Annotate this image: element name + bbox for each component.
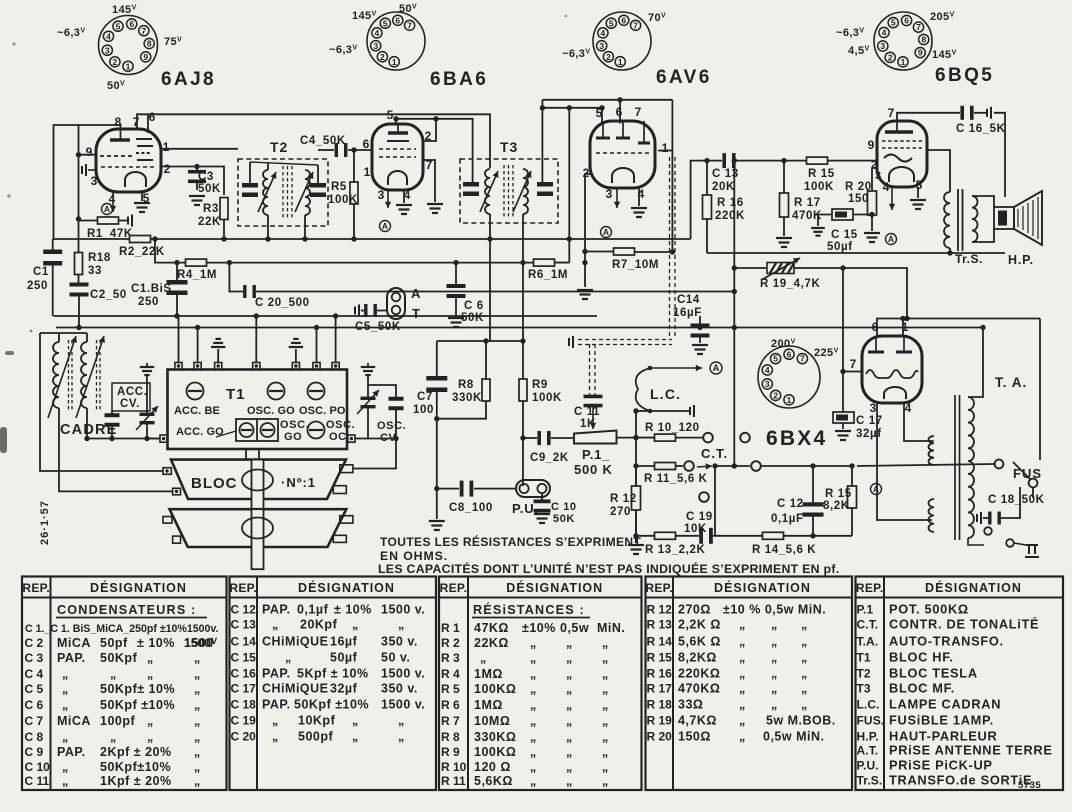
svg-text:„: „ — [771, 651, 778, 665]
svg-text:R 7: R 7 — [441, 714, 460, 728]
svg-text:47KΩ: 47KΩ — [474, 621, 509, 635]
paper smudge left edge — [0, 427, 7, 453]
svg-text:R 20: R 20 — [845, 181, 872, 193]
svg-text:C 19: C 19 — [231, 714, 257, 728]
svg-text:50Kpf ±10%: 50Kpf ±10% — [294, 698, 369, 712]
svg-text:„: „ — [739, 698, 746, 712]
T1 top terminals — [175, 363, 182, 370]
tube V5 plate bars — [868, 351, 912, 354]
svg-text:1500 v.: 1500 v. — [381, 667, 425, 681]
svg-text:C 8: C 8 — [25, 730, 44, 744]
paper speck 4 — [7, 194, 11, 198]
svg-text:3: 3 — [765, 379, 770, 389]
svg-text:DÉSIGNATION: DÉSIGNATION — [714, 580, 811, 595]
svg-text:CHiMiQUE: CHiMiQUE — [262, 682, 329, 696]
svg-text:„: „ — [530, 651, 537, 665]
R1 grid tick — [128, 215, 132, 227]
svg-text:R5: R5 — [331, 181, 347, 193]
tube V4 beam plates — [884, 155, 912, 162]
svg-text:50 v.: 50 v. — [381, 651, 410, 665]
C11 shielded dashed pair — [589, 344, 591, 397]
svg-text:C 18: C 18 — [231, 698, 257, 712]
svg-text:„: „ — [352, 730, 359, 744]
svg-text:C 20_500: C 20_500 — [255, 297, 310, 309]
T1 to BLOC shaft — [246, 449, 259, 460]
svg-text:„: „ — [272, 618, 279, 632]
svg-text:270: 270 — [610, 506, 631, 518]
capacitor C3 — [196, 166, 198, 171]
svg-text:T: T — [412, 306, 421, 321]
V2 pin3 arrow — [385, 190, 391, 208]
svg-text:R9: R9 — [532, 379, 548, 391]
svg-text:22K: 22K — [198, 216, 221, 228]
svg-text:„: „ — [285, 651, 292, 665]
svg-text:3: 3 — [880, 41, 885, 51]
svg-text:PRiSE PiCK-UP: PRiSE PiCK-UP — [889, 758, 993, 773]
svg-text:0,5w MiN.: 0,5w MiN. — [763, 730, 824, 744]
wire V4 grid2 branch — [872, 167, 877, 169]
svg-text:2: 2 — [583, 166, 590, 180]
svg-text:C 5: C 5 — [25, 682, 44, 696]
svg-text:„: „ — [602, 667, 609, 681]
svg-text:C 19: C 19 — [686, 511, 713, 523]
tube socket 6BA6 — [367, 12, 425, 70]
capacitor C16 — [960, 106, 973, 120]
svg-text:OC: OC — [329, 431, 347, 443]
svg-text:26·1·57: 26·1·57 — [39, 500, 51, 545]
V3 pin3 arrow — [614, 188, 620, 208]
tube V2 plate bar — [388, 124, 408, 133]
svg-text:150: 150 — [848, 193, 869, 205]
V4 pin4 arrow — [889, 187, 895, 210]
T3 right capacitor — [537, 182, 553, 196]
svg-text:R 6: R 6 — [441, 698, 460, 712]
T3 core dashed lines — [503, 165, 505, 217]
svg-text:FUS.: FUS. — [857, 714, 885, 728]
svg-text:DÉSIGNATION: DÉSIGNATION — [90, 580, 187, 595]
svg-text:MiN.: MiN. — [597, 621, 625, 635]
svg-text:330K: 330K — [452, 392, 482, 404]
pick-up terminal oval P.U. — [516, 480, 550, 497]
svg-text:1: 1 — [126, 61, 131, 71]
svg-text:A.T.: A.T. — [857, 744, 879, 758]
svg-text:100K: 100K — [804, 181, 834, 193]
T2 left capacitor — [242, 183, 258, 197]
svg-text:MiCA: MiCA — [57, 714, 91, 728]
shield dashed vertical pair from 6AV6 grid — [669, 157, 671, 338]
block T1 outline — [168, 370, 348, 450]
svg-text:H.P.: H.P. — [857, 730, 879, 744]
V4 pin5 ground — [917, 187, 919, 198]
svg-text:4: 4 — [765, 365, 770, 375]
svg-text:„: „ — [62, 774, 69, 788]
svg-text:C 20: C 20 — [231, 730, 257, 744]
svg-text:C7: C7 — [417, 391, 433, 403]
svg-text:6: 6 — [621, 15, 626, 25]
OSC.CV arrow — [357, 390, 379, 414]
R19 arrow — [763, 258, 800, 279]
svg-text:1K: 1K — [580, 418, 596, 430]
svg-text:„: „ — [739, 714, 746, 728]
svg-text:20Kpf: 20Kpf — [300, 618, 338, 632]
svg-text:100KΩ: 100KΩ — [474, 745, 516, 759]
svg-text:„: „ — [110, 730, 117, 744]
L.C. top wire with arrow to A — [650, 365, 702, 371]
svg-text:HAUT-PARLEUR: HAUT-PARLEUR — [889, 729, 997, 744]
svg-text:16µf: 16µf — [330, 635, 358, 649]
ground below C7 line — [429, 521, 445, 530]
svg-text:~6,3V: ~6,3V — [329, 44, 357, 56]
svg-text:T1: T1 — [226, 386, 246, 403]
V1 pin3 grid tick — [88, 169, 96, 171]
svg-text:50K: 50K — [553, 513, 575, 525]
svg-text:„: „ — [530, 682, 537, 696]
svg-text:C 9: C 9 — [25, 745, 44, 759]
svg-text:„: „ — [602, 774, 609, 788]
svg-text:MiCA: MiCA — [57, 636, 91, 650]
svg-text:REP.: REP. — [22, 581, 50, 595]
svg-text:1: 1 — [618, 57, 623, 67]
wire top heater bus from V1 pins to T3 — [137, 114, 490, 168]
svg-text:6: 6 — [904, 16, 909, 26]
svg-text:6: 6 — [129, 19, 134, 29]
svg-text:5: 5 — [773, 354, 778, 364]
svg-text:„: „ — [602, 698, 609, 712]
tube V2 grid dashed 1 — [379, 148, 416, 150]
T1 right side terminal wire to OSC.CV — [355, 438, 368, 440]
CADRE left winding — [53, 342, 59, 408]
transformer T3 dashed box — [460, 159, 558, 223]
svg-text:„: „ — [530, 760, 537, 774]
svg-text:„: „ — [771, 698, 778, 712]
svg-text:R 15: R 15 — [808, 168, 835, 180]
wire V2 pin2 riser — [423, 119, 436, 141]
svg-text:„: „ — [602, 636, 609, 650]
svg-text:0,5w: 0,5w — [560, 621, 589, 635]
svg-text:„: „ — [602, 714, 609, 728]
svg-text:„: „ — [801, 651, 808, 665]
wire T2 to C4 grid line — [318, 149, 334, 151]
svg-text:2: 2 — [113, 57, 118, 67]
V4 circled A — [886, 234, 897, 245]
svg-text:„: „ — [62, 682, 69, 696]
fuse blade — [1013, 462, 1030, 479]
svg-text:R 13_2,2K: R 13_2,2K — [645, 544, 705, 556]
svg-text:AUTO-TRANSFO.: AUTO-TRANSFO. — [889, 634, 1004, 649]
capacitor C6 — [455, 263, 457, 284]
junction vertical x=715 — [714, 466, 716, 536]
Tr.S secondary to HP — [972, 196, 994, 207]
BLOC shaft middle — [252, 460, 264, 510]
paper speck 3 — [12, 42, 15, 45]
svg-text:2Kpf ± 20%: 2Kpf ± 20% — [100, 745, 172, 759]
tube V4 cathode — [889, 167, 914, 182]
svg-text:„: „ — [801, 635, 808, 649]
svg-text:POT. 500KΩ: POT. 500KΩ — [889, 602, 969, 617]
wire R19 to secondary — [794, 268, 907, 319]
svg-text:7: 7 — [635, 105, 642, 119]
svg-text:PAP.: PAP. — [57, 745, 86, 759]
L.C. bottom wire with tick — [650, 410, 690, 412]
resistor R18 — [75, 253, 83, 275]
wire C3 top — [161, 167, 224, 196]
wire V1 pin8 to outer left vertical — [54, 125, 121, 239]
transformer T2 dashed box — [238, 159, 328, 226]
svg-text:C 12: C 12 — [777, 498, 804, 510]
R10 terminal circle — [703, 433, 713, 443]
capacitor C20 — [243, 285, 256, 298]
T3 right winding — [523, 169, 528, 214]
svg-text:P.1_: P.1_ — [582, 447, 610, 462]
svg-text:3: 3 — [606, 187, 613, 201]
svg-text:T.A.: T.A. — [857, 635, 879, 649]
svg-text:7: 7 — [850, 357, 857, 371]
svg-text:TRANSFO.de SORTiE: TRANSFO.de SORTiE — [889, 773, 1032, 788]
svg-text:„: „ — [147, 730, 154, 744]
capacitor C4 — [335, 143, 348, 157]
svg-text:„: „ — [566, 651, 573, 665]
svg-text:5Kpf ± 10%: 5Kpf ± 10% — [297, 667, 369, 681]
svg-text:PAP.: PAP. — [57, 651, 86, 665]
tube V3 pin stems — [603, 121, 644, 143]
Tr.S secondary winding — [972, 196, 978, 242]
svg-text:C 2: C 2 — [25, 636, 44, 650]
supply vertical x=734.3 from C13 row to tone line — [733, 161, 735, 466]
svg-text:1500 v.: 1500 v. — [381, 698, 425, 712]
svg-text:PAP.: PAP. — [262, 603, 291, 617]
svg-text:„: „ — [739, 730, 746, 744]
svg-text:R 9: R 9 — [441, 745, 460, 759]
svg-text:50Kpf± 10%: 50Kpf± 10% — [100, 682, 175, 696]
svg-text:C 10: C 10 — [25, 760, 51, 774]
ACC.CV box label — [112, 383, 150, 411]
svg-text:50pf: 50pf — [100, 636, 128, 650]
svg-text:C1.BiS: C1.BiS — [131, 283, 172, 295]
svg-text:250: 250 — [27, 280, 48, 292]
wire C20 branch from bus — [229, 263, 243, 292]
capacitor C15 electrolytic — [832, 209, 853, 220]
bottom bus y=253 — [707, 252, 1005, 254]
T2 right winding — [305, 170, 310, 215]
svg-text:R 11_5,6 K: R 11_5,6 K — [644, 473, 708, 485]
svg-text:6: 6 — [395, 15, 400, 25]
tube V5 plate stems — [876, 336, 904, 352]
wire V4 plate to Tr.S primary — [927, 150, 950, 192]
R20 ground — [864, 233, 880, 242]
svg-text:120 Ω: 120 Ω — [474, 760, 511, 774]
wire 6BX4 anode top bracket — [877, 319, 1040, 337]
svg-text:145V: 145V — [112, 4, 137, 16]
svg-text:3: 3 — [373, 41, 378, 51]
resistor R7 — [585, 251, 613, 253]
V1 pin5 ground — [141, 192, 143, 201]
svg-text:C 16: C 16 — [231, 667, 257, 681]
svg-text:„: „ — [398, 714, 405, 728]
svg-text:6: 6 — [787, 349, 792, 359]
svg-text:R 19: R 19 — [647, 714, 673, 728]
svg-text:9: 9 — [918, 48, 923, 58]
circled A right of L.C. — [710, 362, 722, 374]
tube V2 6BA6 envelope — [372, 124, 423, 190]
T1 terminal wire 6 — [316, 328, 318, 363]
capacitor C13 — [722, 153, 735, 168]
svg-text:C 15: C 15 — [831, 229, 858, 241]
svg-text:L.C.: L.C. — [650, 386, 681, 402]
svg-text:C14: C14 — [677, 294, 700, 306]
terminal circle below C.T. — [699, 492, 709, 502]
svg-text:4,7KΩ: 4,7KΩ — [678, 714, 717, 728]
svg-text:„: „ — [147, 714, 154, 728]
svg-text:„: „ — [739, 682, 746, 696]
resistor R6 in AVC bus — [534, 259, 555, 266]
svg-text:„: „ — [352, 618, 359, 632]
svg-text:„: „ — [194, 745, 201, 759]
svg-text:C 13: C 13 — [712, 168, 739, 180]
BLOC shaft lower — [252, 509, 264, 569]
C3 ground — [189, 196, 205, 205]
svg-text:BLOC MF.: BLOC MF. — [889, 681, 955, 696]
svg-text:50µf: 50µf — [330, 651, 358, 665]
svg-text:470KΩ: 470KΩ — [678, 682, 720, 696]
svg-text:„: „ — [566, 636, 573, 650]
svg-text:R7_10M: R7_10M — [612, 259, 659, 271]
svg-text:R 19_4,7K: R 19_4,7K — [760, 278, 820, 290]
svg-text:50µf: 50µf — [827, 241, 853, 253]
svg-text:„: „ — [602, 745, 609, 759]
svg-text:± 10%: ± 10% — [137, 636, 175, 650]
svg-text:50Kpf±10%: 50Kpf±10% — [100, 760, 171, 774]
resistor R4 — [186, 259, 207, 266]
C14 ground — [692, 345, 708, 354]
svg-text:LES CAPACITÉS DONT L’UNITÉ N’E: LES CAPACITÉS DONT L’UNITÉ N’EST PAS IND… — [378, 561, 839, 576]
svg-text:5: 5 — [609, 18, 614, 28]
resistor R2 in bus — [130, 236, 151, 243]
svg-text:0,1µf: 0,1µf — [297, 603, 329, 617]
paper speck 5 — [565, 15, 568, 18]
tube V1 heptode electrodes — [136, 129, 153, 160]
tube socket 6AV6 — [593, 12, 651, 70]
circled A above R1 — [102, 204, 113, 215]
tube V1 cathode — [125, 172, 146, 187]
svg-text:ACC.: ACC. — [117, 386, 148, 398]
svg-text:3: 3 — [875, 170, 881, 182]
svg-text:6BA6: 6BA6 — [430, 69, 488, 90]
svg-text:C 3: C 3 — [25, 651, 44, 665]
capacitor C10 under P.U. — [541, 493, 543, 501]
svg-text:R 18: R 18 — [647, 698, 673, 712]
wire 6BX4 pin7 to supply — [843, 371, 862, 373]
Tr.S primary bottom to bus — [949, 248, 951, 253]
svg-text:REP.: REP. — [440, 581, 468, 595]
tube socket 6AJ8 — [99, 16, 158, 75]
CADRE right winding — [81, 342, 87, 408]
svg-text:OSC.: OSC. — [326, 419, 355, 431]
V1 pin4 arrow — [110, 192, 116, 212]
wire 6AV6 line h2 — [542, 107, 602, 109]
svg-text:„: „ — [566, 774, 573, 788]
svg-text:EN OHMS.: EN OHMS. — [380, 549, 448, 563]
svg-text:C4_50K: C4_50K — [300, 135, 346, 147]
svg-text:OSC.: OSC. — [280, 419, 309, 431]
svg-text:„: „ — [62, 730, 69, 744]
wire AVC bus end up to C13 row — [691, 161, 722, 239]
svg-text:FUS: FUS — [1013, 466, 1042, 481]
ACC.GO pointer line — [216, 431, 236, 437]
svg-text:1MΩ: 1MΩ — [474, 667, 503, 681]
svg-text:DÉSIGNATION: DÉSIGNATION — [298, 580, 395, 595]
svg-text:„: „ — [272, 730, 279, 744]
svg-text:50Kpf ±10%: 50Kpf ±10% — [100, 698, 175, 712]
svg-text:9: 9 — [143, 52, 148, 62]
svg-text:70V: 70V — [648, 12, 666, 24]
svg-text:4: 4 — [883, 180, 890, 194]
tube V2 cathode — [388, 171, 407, 185]
tube V1 6AJ8 envelope — [96, 129, 161, 192]
svg-text:A: A — [603, 227, 609, 237]
T3 tuning arrows — [480, 171, 498, 212]
circled A right mid — [871, 484, 882, 495]
svg-text:R 15: R 15 — [647, 651, 673, 665]
svg-text:5,6KΩ: 5,6KΩ — [474, 774, 513, 788]
svg-text:C 15: C 15 — [231, 651, 257, 665]
resistor R5 — [353, 150, 355, 182]
C6 ground — [448, 318, 464, 327]
svg-text:„: „ — [480, 651, 487, 665]
V3 circled A — [601, 227, 612, 238]
svg-text:CONDENSATEURS :: CONDENSATEURS : — [57, 603, 197, 617]
svg-text:1: 1 — [787, 395, 792, 405]
svg-text:100: 100 — [413, 404, 434, 416]
Tr.S core lines — [957, 189, 959, 251]
feedback line R19 y=268 — [734, 267, 766, 269]
wire C16 tick down to HP — [994, 113, 1005, 197]
ACC.CV fixed capacitor — [105, 413, 120, 427]
svg-text:C9_2K: C9_2K — [530, 452, 569, 464]
antenna terminal strip A/T oval — [387, 288, 405, 319]
fuse terminal circle 1 — [995, 460, 1004, 469]
capacitor C1.BIS — [176, 263, 178, 280]
svg-text:R 15: R 15 — [825, 488, 852, 500]
svg-text:C3: C3 — [198, 171, 214, 183]
svg-text:225V: 225V — [814, 347, 839, 359]
svg-text:220KΩ: 220KΩ — [678, 667, 720, 681]
wire 6AV6 top line h1 — [542, 99, 672, 101]
svg-text:C 17: C 17 — [856, 415, 883, 427]
svg-text:A: A — [382, 221, 388, 231]
svg-text:0,1µF: 0,1µF — [771, 513, 804, 525]
svg-text:„: „ — [194, 714, 201, 728]
capacitor C12 — [812, 466, 814, 503]
tube socket 6BQ5 — [874, 12, 932, 70]
svg-text:TOUTES LES RÉSISTANCES S’EXPRI: TOUTES LES RÉSISTANCES S’EXPRIMENT — [380, 534, 641, 549]
resistor R15 100K (grid stopper) — [807, 157, 828, 164]
ACC.CV variable capacitor — [140, 367, 154, 375]
svg-text:C 10: C 10 — [551, 501, 577, 513]
wire P.1 to junction x636 — [617, 437, 656, 439]
svg-text:C 17: C 17 — [231, 682, 257, 696]
svg-text:5w M.BOB.: 5w M.BOB. — [766, 714, 836, 728]
svg-text:350 v.: 350 v. — [381, 635, 418, 649]
svg-text:„: „ — [602, 760, 609, 774]
lamp L.C. bracket — [636, 368, 650, 411]
tube V4 grid dashed 1 — [882, 140, 922, 142]
svg-text:C 18_50K: C 18_50K — [988, 494, 1045, 506]
wire V1 pin6 stem — [147, 115, 149, 130]
svg-text:1500 v.: 1500 v. — [381, 603, 425, 617]
CADRE left winding bottom to BLOC tab2 — [59, 408, 173, 491]
T1 left side terminal wire — [147, 438, 160, 440]
svg-text:Tr.S.: Tr.S. — [857, 774, 883, 788]
